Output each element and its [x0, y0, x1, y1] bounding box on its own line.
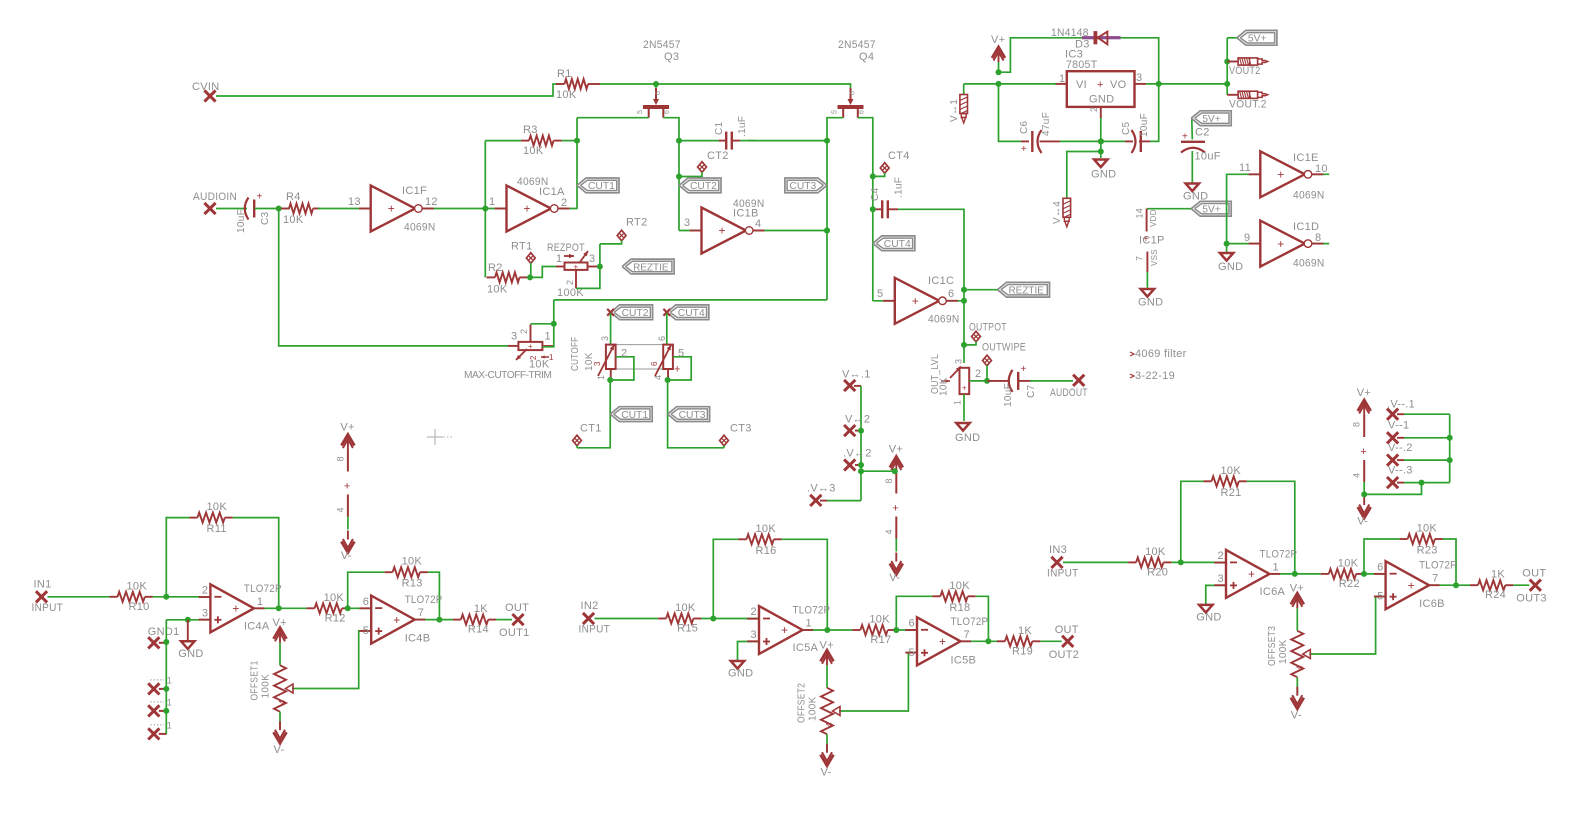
- svg-text:R12: R12: [325, 612, 346, 624]
- svg-text:V+: V+: [1357, 387, 1371, 399]
- svg-text:C4: C4: [870, 187, 881, 201]
- resistor R17 10K: [852, 614, 895, 647]
- power pins IC1P: [1135, 208, 1165, 288]
- svg-text:IN2: IN2: [581, 600, 599, 612]
- flag CUT4 lower: [663, 305, 708, 345]
- svg-text:CUT4: CUT4: [884, 239, 911, 250]
- svg-text:100K: 100K: [1278, 639, 1289, 664]
- wire to opamp2 pin6: [345, 596, 372, 612]
- svg-text:4: 4: [884, 529, 894, 534]
- resistor R22 10K: [1321, 557, 1364, 590]
- svg-text:R13: R13: [402, 578, 423, 590]
- svg-text:7: 7: [418, 607, 424, 619]
- svg-text:IC5B: IC5B: [951, 654, 977, 666]
- svg-text:VOUT2: VOUT2: [1229, 65, 1261, 77]
- svg-text:100K: 100K: [261, 674, 272, 699]
- flag 5V+ top right: [1237, 30, 1277, 45]
- transistor Q3 2N5457: [637, 39, 681, 118]
- svg-text:CUT1: CUT1: [588, 181, 615, 192]
- svg-text:V-: V-: [274, 744, 285, 756]
- svg-text:RT1: RT1: [511, 241, 532, 253]
- wire pin5 to offset wiper: [839, 653, 917, 711]
- svg-text:1: 1: [257, 596, 263, 608]
- flag CUT3 lower: [668, 407, 710, 422]
- flag REZTIE output: [964, 282, 1050, 297]
- svg-text:4: 4: [825, 722, 834, 727]
- node OUT2 output: [1049, 624, 1080, 661]
- svg-text:4069N: 4069N: [1293, 258, 1325, 270]
- wire trim pot wiper node: [531, 321, 557, 327]
- resistor R14 1K: [453, 603, 496, 636]
- node RT1 test point: [511, 241, 535, 278]
- wire V+ to diode: [999, 38, 1083, 72]
- svg-text:V--.3: V--.3: [1388, 465, 1413, 477]
- svg-text:2: 2: [751, 606, 757, 618]
- svg-text:C2: C2: [1195, 127, 1210, 139]
- wire IN2 to R15: [595, 618, 659, 620]
- wire pin3 to ground: [738, 642, 760, 661]
- svg-text:OUT3: OUT3: [1516, 593, 1547, 605]
- svg-text:+: +: [257, 192, 263, 203]
- svg-text:C7: C7: [1026, 384, 1037, 398]
- wire IC4A out: [254, 605, 307, 611]
- svg-text:1: 1: [556, 253, 562, 265]
- svg-text:6: 6: [664, 110, 671, 114]
- wire D3 to VO node: [1121, 38, 1159, 84]
- svg-text:V-: V-: [821, 767, 832, 779]
- node IN2 input: [579, 600, 611, 636]
- wire C3 node down to trim pot: [279, 209, 508, 346]
- trimpot OFFSET1 100K: [250, 617, 294, 756]
- svg-text:GND: GND: [955, 432, 980, 444]
- svg-text:4: 4: [278, 700, 287, 705]
- svg-text:GND: GND: [1218, 261, 1243, 273]
- svg-text:1K: 1K: [1491, 569, 1505, 581]
- node IN1 input: [32, 578, 64, 614]
- svg-text:10uF: 10uF: [1139, 113, 1150, 137]
- svg-text:10uF: 10uF: [236, 209, 247, 233]
- svg-text:TLO72P: TLO72P: [793, 605, 831, 617]
- svg-text:R3: R3: [523, 124, 538, 136]
- node AUDOUT output: [1050, 375, 1088, 399]
- trimmer MAX-CUTOFF-TRIM 10K: [464, 325, 554, 382]
- node .V<->3 stub: [807, 483, 861, 507]
- svg-text:8: 8: [1352, 422, 1362, 427]
- svg-text:6: 6: [859, 110, 866, 114]
- svg-text:C5: C5: [1121, 121, 1132, 135]
- wire IC5A out: [803, 627, 853, 633]
- wire V-- to IC6 chain: [1361, 483, 1421, 498]
- svg-text:10K: 10K: [127, 580, 148, 592]
- wire feedback riser R21: [1181, 481, 1204, 562]
- power pins IC6 V+/V-: [1352, 387, 1371, 528]
- svg-text:C3: C3: [260, 211, 271, 225]
- wire input node: [1171, 550, 1226, 566]
- svg-text:TLO72P: TLO72P: [951, 616, 989, 628]
- node CT2 test point: [676, 150, 729, 180]
- svg-text:IN3: IN3: [1049, 544, 1067, 556]
- wire IN3 to R20: [1063, 561, 1128, 563]
- ground pin3: [178, 620, 203, 660]
- wire R3 out / CUT1 column: [574, 118, 580, 209]
- svg-text:R21: R21: [1221, 487, 1242, 499]
- wire feedback2 to output: [1443, 539, 1456, 585]
- svg-text:GND: GND: [1089, 94, 1114, 106]
- flag CUT4 upper: [873, 236, 915, 251]
- svg-text:100K: 100K: [808, 696, 819, 721]
- wire IC3 gnd stub: [1098, 118, 1104, 158]
- svg-text:R2: R2: [488, 262, 503, 274]
- svg-text:+: +: [1408, 578, 1415, 592]
- svg-text:1: 1: [806, 618, 812, 630]
- svg-text:INPUT: INPUT: [32, 602, 64, 614]
- svg-text:GND1: GND1: [148, 626, 180, 638]
- svg-text:7805T: 7805T: [1066, 59, 1098, 71]
- resistor R3: [485, 124, 577, 157]
- svg-text:+: +: [1143, 234, 1149, 245]
- svg-text:Q3: Q3: [664, 51, 679, 63]
- svg-text:REZTIE: REZTIE: [1009, 286, 1045, 297]
- connector VOUT.2: [1227, 91, 1267, 110]
- svg-text:CUT1: CUT1: [621, 410, 648, 421]
- svg-text:10K: 10K: [487, 284, 508, 296]
- svg-text:IC1C: IC1C: [928, 275, 954, 287]
- svg-text:TLO72P: TLO72P: [1419, 560, 1457, 572]
- svg-text:10K: 10K: [283, 214, 304, 226]
- svg-text:.V↔2: .V↔2: [843, 448, 872, 460]
- resistor R10 10K: [110, 580, 153, 613]
- svg-text:R20: R20: [1147, 566, 1168, 578]
- svg-text:.V↔3: .V↔3: [807, 483, 836, 495]
- svg-text:14: 14: [1135, 208, 1145, 219]
- svg-text:VI: VI: [1076, 79, 1087, 91]
- wire V+ stack column: [860, 386, 862, 501]
- node OUTPOT test point: [964, 322, 1007, 345]
- svg-text:5V+: 5V+: [1202, 114, 1221, 125]
- wire R2 to REZPOT pin1: [527, 267, 556, 281]
- op-amp IC4B TL072P: [360, 594, 443, 645]
- wire IC1C out: [946, 287, 967, 304]
- connector VOUT2: [1227, 58, 1267, 77]
- flag CUT2 upper: [679, 178, 721, 193]
- svg-text:3: 3: [511, 331, 517, 343]
- svg-text:3-22-19: 3-22-19: [1135, 370, 1175, 382]
- flag CUT1: [610, 407, 652, 422]
- wire pin3 to ground: [1206, 585, 1226, 604]
- resistor R13 10K: [385, 556, 428, 590]
- svg-text:+: +: [524, 202, 531, 216]
- power pins IC4 V+/V-: [335, 422, 354, 563]
- svg-text:V+: V+: [340, 422, 354, 434]
- op-amp IC5B TL072P: [905, 616, 988, 667]
- svg-text:10K: 10K: [675, 602, 696, 614]
- resistor R12 10K: [307, 592, 350, 625]
- wire IC6B out: [1429, 582, 1470, 588]
- svg-text:10K: 10K: [207, 501, 228, 513]
- wire IC6A out: [1270, 571, 1321, 577]
- node CT3 test point: [720, 423, 752, 448]
- origin crosshair: [427, 429, 452, 445]
- svg-text:10: 10: [1315, 163, 1328, 175]
- flag REZTIE middle: [622, 259, 674, 274]
- svg-text:CUT3: CUT3: [789, 181, 816, 192]
- svg-text:INPUT: INPUT: [579, 624, 611, 636]
- text title 4069 filter: [1130, 348, 1187, 360]
- wire to OUT3: [1513, 584, 1529, 586]
- capacitor C1 .1uF: [679, 116, 755, 150]
- connector V1 pinhead: [949, 84, 968, 123]
- svg-text:11: 11: [1239, 162, 1251, 174]
- svg-text:V-: V-: [341, 550, 352, 562]
- wire feedback riser R23: [1364, 539, 1400, 574]
- svg-text:1: 1: [167, 697, 172, 707]
- svg-text:V+: V+: [991, 34, 1005, 46]
- wire CUT1 column: [577, 380, 610, 448]
- wire cap rail left: [999, 84, 1022, 141]
- svg-text:R22: R22: [1339, 578, 1360, 590]
- op-inverter IC1A: [495, 176, 570, 232]
- svg-text:5: 5: [832, 110, 839, 114]
- wire input node: [701, 606, 759, 622]
- svg-text:13: 13: [348, 196, 361, 208]
- svg-text:10uF: 10uF: [1195, 151, 1221, 163]
- wire VO output net: [1146, 81, 1227, 87]
- potentiometer OUT_LVL 10K: [930, 354, 987, 405]
- diode D3 1N4148: [1051, 27, 1121, 51]
- wire GND1 column: [165, 620, 167, 735]
- power pins IC5 V+/V-: [884, 444, 903, 585]
- svg-text:1: 1: [596, 375, 606, 380]
- svg-text:C6: C6: [1019, 120, 1030, 134]
- svg-text:+: +: [1277, 237, 1284, 251]
- svg-text:6: 6: [948, 288, 954, 300]
- svg-text:4: 4: [755, 218, 761, 230]
- svg-text:IN1: IN1: [34, 578, 52, 590]
- op-amp IC5A TL072P: [747, 605, 830, 655]
- svg-text:R10: R10: [129, 601, 150, 613]
- svg-text:R4: R4: [286, 191, 301, 203]
- svg-text:V--1: V--1: [1388, 420, 1409, 432]
- svg-text:IC6B: IC6B: [1419, 598, 1445, 610]
- wire pin3 net: [166, 617, 210, 623]
- ground pin3: [728, 661, 753, 680]
- svg-text:V-: V-: [889, 572, 900, 584]
- wire feedback to output: [233, 518, 279, 609]
- svg-text:+: +: [892, 503, 899, 515]
- wire IC1C out column: [961, 342, 967, 348]
- svg-text:R1: R1: [557, 68, 572, 80]
- node CT4 test point: [870, 150, 910, 179]
- wire IC1F out to IC1A pin1: [421, 196, 506, 212]
- resistor R20 10K: [1128, 546, 1171, 579]
- svg-text:OUT: OUT: [505, 602, 529, 614]
- wire REZPOT wiper to pin3 node: [576, 244, 603, 289]
- svg-text:.1uF: .1uF: [894, 177, 905, 198]
- wire cap rail mid: [1060, 138, 1125, 144]
- resistor R24 1K: [1470, 569, 1513, 602]
- ground C2: [1183, 184, 1208, 203]
- svg-text:IC4A: IC4A: [244, 620, 270, 632]
- svg-text:IC6A: IC6A: [1260, 586, 1286, 598]
- connector V4 pinhead: [1052, 198, 1071, 227]
- wire OUT_LVL to GND: [963, 394, 965, 421]
- potentiometer REZPOT 100K: [547, 242, 600, 299]
- svg-text:R15: R15: [677, 623, 698, 635]
- op-inverter IC1D: [1244, 221, 1325, 270]
- svg-text:V+: V+: [889, 444, 903, 456]
- svg-text:7: 7: [1432, 573, 1438, 585]
- gang link CUTOFF: [616, 345, 664, 369]
- svg-text:8: 8: [884, 478, 894, 483]
- node V<->2 stub: [844, 414, 870, 437]
- ground below OUT_LVL: [955, 423, 980, 444]
- wire Q3 drain to C1 node: [663, 118, 682, 231]
- regulator IC3 7805T: [1055, 49, 1146, 119]
- svg-text:10K: 10K: [556, 89, 577, 101]
- svg-text:9: 9: [1244, 232, 1250, 244]
- wire V-- column: [1449, 414, 1451, 482]
- svg-text:CUTOFF: CUTOFF: [570, 337, 581, 371]
- potentiometer CUTOFF 10K section A: [570, 336, 634, 383]
- svg-text:R18: R18: [949, 602, 970, 614]
- jumper pin stub 3: [148, 720, 172, 739]
- svg-text:5: 5: [1377, 591, 1383, 603]
- node OUTWIPE test point: [982, 342, 1026, 384]
- svg-text:7: 7: [964, 629, 970, 641]
- svg-text:V↔1: V↔1: [949, 99, 960, 122]
- svg-text:CUT2: CUT2: [622, 308, 649, 319]
- svg-text:1K: 1K: [474, 603, 488, 615]
- svg-text:OUT2: OUT2: [1049, 649, 1080, 661]
- svg-text:10K: 10K: [1221, 465, 1242, 477]
- wire 5V+ net right: [1227, 37, 1237, 39]
- wire feedback2 to output: [976, 596, 989, 641]
- transistor Q4 2N5457: [832, 39, 876, 118]
- svg-text:VSS: VSS: [1150, 249, 1159, 266]
- svg-text:4069N: 4069N: [1293, 190, 1325, 202]
- resistor R19 1K: [997, 625, 1040, 658]
- wire cutoff rail: [554, 299, 827, 301]
- wire feedback riser R18: [896, 596, 932, 630]
- ground pin3: [1196, 605, 1221, 624]
- svg-text:1: 1: [167, 675, 172, 685]
- svg-text:GND: GND: [1138, 297, 1163, 309]
- svg-text:GND: GND: [1091, 169, 1116, 181]
- wire input node: [153, 584, 211, 600]
- node V--.3 stub: [1387, 465, 1450, 489]
- wire IC5B out: [961, 638, 998, 644]
- resistor R15 10K: [658, 602, 701, 635]
- svg-text:1: 1: [953, 400, 963, 405]
- svg-text:5: 5: [637, 110, 644, 114]
- svg-text:3: 3: [684, 217, 690, 229]
- node .V<->2 stub: [843, 448, 872, 471]
- svg-text:4: 4: [335, 507, 345, 512]
- svg-text:IC4B: IC4B: [405, 633, 431, 645]
- svg-text:1: 1: [549, 353, 554, 362]
- svg-text:6: 6: [650, 361, 659, 366]
- svg-text:V-: V-: [1291, 710, 1302, 722]
- ground IC1 inputs: [1218, 253, 1243, 273]
- wire pin5 to offset wiper: [292, 631, 371, 689]
- wire pin5 to offset wiper: [1309, 597, 1385, 655]
- svg-text:OUT: OUT: [1522, 568, 1546, 580]
- resistor R23 10K: [1400, 523, 1443, 557]
- wire R1 to Q3/Q4 gates: [600, 81, 851, 89]
- wire IC1E input rail: [1224, 174, 1261, 252]
- svg-text:6: 6: [909, 618, 915, 630]
- svg-text:3: 3: [1218, 573, 1224, 585]
- capacitor C5 10uF: [1121, 113, 1150, 153]
- node OUT3 output: [1516, 568, 1547, 605]
- op-inverter IC1B: [684, 198, 765, 254]
- svg-text:5V+: 5V+: [1202, 205, 1221, 216]
- svg-text:TLO72P: TLO72P: [244, 583, 282, 595]
- svg-text:10K: 10K: [869, 614, 890, 626]
- svg-text:+: +: [912, 294, 919, 308]
- resistor R4: [281, 191, 320, 226]
- svg-text:TLO72P: TLO72P: [1260, 548, 1298, 560]
- svg-text:1: 1: [489, 196, 495, 208]
- svg-text:1K: 1K: [1018, 625, 1032, 637]
- svg-text:+: +: [1360, 446, 1367, 458]
- capacitor C4 .1uF: [870, 177, 905, 219]
- svg-text:OUTWIPE: OUTWIPE: [982, 342, 1026, 354]
- wire feedback riser R11: [166, 518, 189, 597]
- svg-text:2: 2: [975, 368, 981, 380]
- svg-text:OFFSET1: OFFSET1: [250, 660, 261, 700]
- svg-text:+: +: [388, 202, 395, 216]
- svg-text:12: 12: [425, 196, 438, 208]
- wire to opamp2 pin6: [893, 618, 917, 634]
- wire IC1A out to column: [558, 208, 577, 210]
- svg-text:+: +: [232, 602, 239, 616]
- op-amp IC4A TL072P: [199, 583, 282, 633]
- svg-text:4: 4: [1352, 473, 1362, 478]
- wire C4 to IC1C column: [898, 209, 964, 363]
- wire IC1C input: [873, 300, 895, 302]
- svg-text:1: 1: [1273, 561, 1279, 573]
- svg-text:2: 2: [565, 280, 575, 285]
- wire Q3 source to R3 node: [577, 117, 649, 119]
- svg-text:7: 7: [1135, 256, 1145, 261]
- capacitor C2 10uF: [1181, 111, 1231, 183]
- svg-text:5: 5: [877, 288, 883, 300]
- wire IC1A node down to R2: [484, 209, 486, 278]
- svg-text:6: 6: [655, 91, 662, 95]
- svg-text:CT3: CT3: [730, 423, 752, 435]
- node V--1 stub: [1387, 420, 1453, 444]
- svg-text:1N4148: 1N4148: [1051, 27, 1089, 39]
- svg-text:2: 2: [1218, 550, 1224, 562]
- svg-text:CT2: CT2: [707, 150, 729, 162]
- wire VOUT2 column: [1224, 38, 1230, 95]
- svg-text:10K: 10K: [584, 352, 595, 371]
- trimpot OFFSET3 100K: [1267, 582, 1311, 721]
- svg-text:R24: R24: [1485, 589, 1506, 601]
- wire IC1A input feedback riser: [484, 141, 486, 209]
- wire Q4 source to C1 column: [827, 118, 843, 300]
- wire IC1E out stub: [1312, 173, 1330, 175]
- wire C1 to Q4 node: [748, 138, 830, 144]
- svg-text:V-: V-: [1357, 516, 1368, 528]
- node V<->.1 stub: [842, 369, 871, 392]
- svg-text:6: 6: [657, 336, 667, 341]
- node V--.2 stub: [1387, 442, 1453, 466]
- resistor R21 10K: [1204, 465, 1247, 499]
- svg-text:CUT3: CUT3: [679, 410, 706, 421]
- svg-text:V--.2: V--.2: [1388, 442, 1413, 454]
